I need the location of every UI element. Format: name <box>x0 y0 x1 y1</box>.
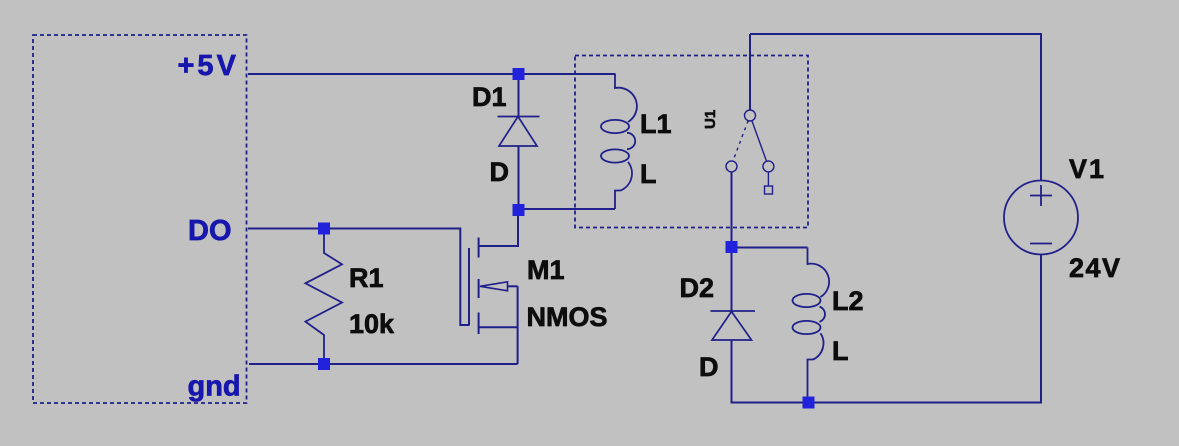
svg-text:M1: M1 <box>527 255 565 285</box>
diode D2 <box>711 247 756 340</box>
svg-text:D2: D2 <box>680 273 715 303</box>
NC open terminal square <box>765 186 773 194</box>
junction +5V/D1 <box>513 68 525 80</box>
wire DO to gate <box>248 229 469 326</box>
source vertical <box>517 286 519 364</box>
svg-text:L: L <box>640 159 657 189</box>
wire NO contact down <box>731 172 733 247</box>
voltage source V1 <box>1004 181 1078 255</box>
NC stub <box>767 172 769 186</box>
plus sign <box>1030 195 1052 197</box>
resistor R1 <box>305 234 342 359</box>
pole riser wire <box>749 34 751 110</box>
drain stub <box>479 210 518 246</box>
inductor L2 <box>793 248 830 403</box>
bulk stub <box>479 326 518 328</box>
throw arm dashed <box>733 121 748 162</box>
svg-text:NMOS: NMOS <box>527 302 608 332</box>
pole contact circle <box>745 110 756 121</box>
svg-text:D: D <box>490 157 510 187</box>
svg-text:L: L <box>832 336 849 366</box>
diode D1 <box>498 74 540 210</box>
channel segments <box>478 238 480 258</box>
junction switch/D2/L2 <box>726 241 738 253</box>
svg-text:D: D <box>699 352 719 382</box>
dashed box relay <box>575 56 808 228</box>
svg-text:V1: V1 <box>1069 154 1106 184</box>
nmos M1 <box>469 210 518 364</box>
svg-text:D1: D1 <box>472 82 507 112</box>
dashed box microcontroller port <box>33 35 247 403</box>
NC contact circle <box>763 161 774 172</box>
junction L2/bottom rail <box>803 397 815 409</box>
svg-text:gnd: gnd <box>188 371 241 403</box>
minus sign <box>1030 243 1052 245</box>
wire relay coil top <box>732 247 808 249</box>
wire switch to V1 top <box>750 34 1041 181</box>
junction D1/L1/drain <box>513 204 525 216</box>
wire D1 anode to L1 bottom <box>519 208 616 210</box>
svg-text:L1: L1 <box>640 109 672 139</box>
junction DO/R1 <box>318 223 330 235</box>
svg-text:+5V: +5V <box>178 50 239 82</box>
NO contact circle <box>726 161 737 172</box>
svg-text:L2: L2 <box>832 286 864 316</box>
wire gnd rail <box>249 363 518 365</box>
wire +5V rail <box>248 73 615 75</box>
wire V1 bottom rail <box>732 255 1042 403</box>
svg-text:DO: DO <box>188 215 232 247</box>
svg-text:24V: 24V <box>1069 253 1122 283</box>
inductor L1 <box>601 74 637 210</box>
svg-text:10k: 10k <box>349 309 395 339</box>
svg-text:R1: R1 <box>349 263 384 293</box>
junction gnd/R1 <box>318 358 330 370</box>
relay switch U1 <box>726 34 774 247</box>
svg-text:U1: U1 <box>702 110 719 129</box>
throw arm solid <box>752 121 767 162</box>
source arrow stub <box>480 282 508 291</box>
gate bar <box>468 248 470 326</box>
